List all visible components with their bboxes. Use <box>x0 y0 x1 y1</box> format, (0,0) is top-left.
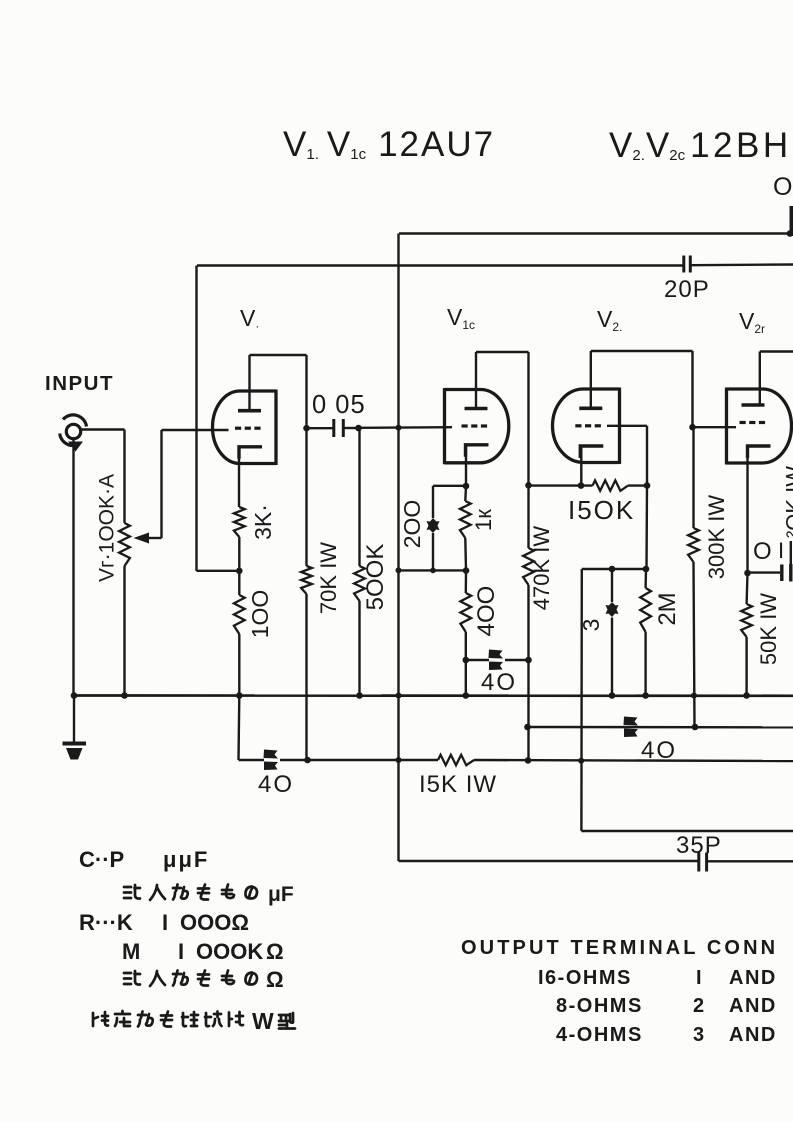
svg-text:V2r: V2r <box>739 308 765 336</box>
resistor 3K <box>234 507 245 537</box>
node 70K bottom / rail 760 <box>304 757 311 764</box>
text 8-OHMS 2 AND <box>556 995 777 1017</box>
svg-text:1OO: 1OO <box>247 590 273 639</box>
label 1K <box>471 509 496 531</box>
node 470K bottom / rail 760 <box>525 757 532 764</box>
label 15K 1W <box>419 771 497 798</box>
svg-text:O: O <box>753 538 772 565</box>
resistor 50K 1W <box>741 573 752 696</box>
text 16-OHMS 1 AND <box>538 967 777 989</box>
note line 2: kanji (unlabeled values are uF) <box>124 883 294 906</box>
node crossing line-A vertical / grid wire <box>396 425 402 431</box>
svg-text:I: I <box>778 538 784 563</box>
wire ground bus <box>74 694 793 697</box>
label V1c <box>447 304 475 332</box>
wire feedback to output (y=831) <box>581 830 793 832</box>
svg-text:8-OHMS: 8-OHMS <box>556 995 643 1017</box>
capacitor 20P plates <box>684 256 691 273</box>
node V1 cathode junction (3K/100/feedback) <box>236 568 243 575</box>
svg-text:4OO: 4OO <box>473 586 500 637</box>
wire 35P line (y=861) <box>399 860 793 863</box>
wire 200/1K bottom to line-A vertical <box>399 569 467 571</box>
label V2b <box>739 308 765 336</box>
node 400 bottom / 40 cap link <box>463 657 470 664</box>
resistor 100 <box>234 595 245 634</box>
svg-text:I: I <box>696 967 702 989</box>
wire 100-bottom down to rail 760 <box>237 696 240 761</box>
svg-text:O: O <box>773 173 792 201</box>
svg-text:I: I <box>178 939 184 964</box>
note line 4: M 1000K ohm <box>122 939 284 964</box>
node 400 / ground bus <box>463 692 470 699</box>
node 3-cap top <box>609 566 616 573</box>
wire coupling to V1c grid <box>359 426 453 429</box>
wire left vertical of line B (x=196) <box>195 266 197 572</box>
svg-text:²OK IW: ²OK IW <box>782 466 793 538</box>
svg-text:V2.V2c12BH: V2.V2c12BH <box>609 126 792 165</box>
svg-text:5OOK: 5OOK <box>362 544 389 611</box>
svg-text:V2.: V2. <box>597 306 622 334</box>
wire V2a plate lead <box>590 351 592 408</box>
wire V1 cathode lead down <box>238 447 240 507</box>
svg-text:50K IW: 50K IW <box>756 593 781 665</box>
svg-text:0 05: 0 05 <box>312 391 366 419</box>
svg-text:OOOK: OOOK <box>196 939 263 964</box>
node 0.05 / 500K / grid wire <box>355 425 362 432</box>
wire input jack down to ground bus <box>72 439 74 696</box>
label O (cut off at right edge) <box>773 173 792 201</box>
svg-text:AND: AND <box>729 995 777 1017</box>
label Vr 100K.A <box>96 474 119 582</box>
node line-A vertical / ground bus <box>396 693 402 699</box>
svg-text:2M: 2M <box>654 592 681 625</box>
capacitor 40 (V1c cathode bypass link) <box>466 650 529 671</box>
svg-text:1к: 1к <box>471 509 496 531</box>
svg-text:3K·: 3K· <box>250 504 276 540</box>
svg-text:4O: 4O <box>481 669 517 696</box>
label 50K 1W <box>756 593 781 665</box>
wire rail 760 middle <box>308 759 439 761</box>
node line-A vertical / rail 760 <box>396 757 402 763</box>
label 70K 1W <box>316 542 341 614</box>
note line 6: kanji (unspecified resistors are W type) <box>93 1008 295 1034</box>
label 0.1 <box>753 538 784 565</box>
svg-text:μμF: μμF <box>163 847 209 872</box>
input jack J1 <box>60 415 87 452</box>
wire 3K to junction <box>238 537 240 571</box>
resistor 470K 1W <box>523 485 534 760</box>
node bypass bottom / vertical <box>396 567 402 573</box>
resistor 400 <box>460 571 471 660</box>
label 470K 1W <box>529 526 554 611</box>
label 150K <box>568 495 635 525</box>
wire top line A (plate supply to output transformer) <box>399 232 790 234</box>
node 300K bottom / rail 727 <box>692 724 699 731</box>
capacitor 200 (cathode bypass) <box>427 486 440 571</box>
wire top line B (feedback bus) <box>197 265 793 266</box>
wire V2b cathode lead <box>746 446 748 573</box>
svg-text:μF: μF <box>268 883 294 906</box>
node 3-cap / ground bus <box>609 692 616 699</box>
wire V2a plate to V2b grid <box>591 351 693 427</box>
node 300K / ground bus <box>691 693 697 699</box>
label fragment cut at right edge <box>782 466 793 538</box>
resistor 2M <box>640 569 651 696</box>
svg-text:2: 2 <box>693 995 704 1017</box>
capacitor 3 (bias) <box>606 569 619 696</box>
svg-text:4-OHMS: 4-OHMS <box>556 1024 643 1046</box>
svg-text:OUTPUT TERMINAL CONN: OUTPUT TERMINAL CONN <box>461 937 778 959</box>
svg-text:INPUT: INPUT <box>45 372 114 395</box>
node junction line A / terminal <box>787 230 793 237</box>
triode V2a (12BH7 section) <box>553 388 620 465</box>
svg-text:Vг·1OOK·A: Vг·1OOK·A <box>96 474 119 582</box>
svg-text:V·: V· <box>240 305 259 333</box>
label 3 <box>578 619 604 632</box>
svg-text:Ω: Ω <box>266 939 284 964</box>
wire V2a cathode lead <box>580 446 582 486</box>
wire V1 plate lead <box>248 355 250 411</box>
resistor 1K <box>460 486 471 571</box>
svg-text:AND: AND <box>729 1024 777 1046</box>
wire V1 plate to 70K top <box>250 355 307 428</box>
svg-text:W: W <box>252 1008 274 1034</box>
label 40 (rail 727) <box>641 737 677 764</box>
triode V1c (12AU7 section) <box>445 388 509 464</box>
capacitor 40 (rail 760) <box>264 750 279 771</box>
wire left vertical of line A (x=398 down to 35P line) <box>397 234 399 862</box>
label 0 05 <box>312 391 366 419</box>
label V2a <box>597 306 622 334</box>
wire rail 760 right segment <box>474 760 793 761</box>
node 100 / ground bus <box>236 692 243 699</box>
label V1 <box>240 305 259 333</box>
node 2M / ground bus <box>642 692 649 699</box>
wire 70K node to 0.05 cap <box>307 427 334 429</box>
svg-text:Ω: Ω <box>266 967 284 992</box>
resistor 300K 1W <box>688 427 699 727</box>
label 3K <box>250 504 276 540</box>
label 20P <box>664 276 710 303</box>
svg-text:4O: 4O <box>258 771 294 798</box>
wire 0.05 cap to 500K node <box>344 427 359 429</box>
label tube types V2 V2c 12BH7 <box>609 126 792 165</box>
node 2M top / 150K-corner line <box>643 566 650 573</box>
wire V1c plate lead <box>475 352 477 409</box>
note line 1: C..P uuF <box>79 847 209 872</box>
wire 400 to ground bus <box>465 660 467 696</box>
capacitor 0.05 plates <box>334 419 344 437</box>
wire 470K top to V2a cathode <box>529 484 593 486</box>
svg-text:V1.V1c12AU7: V1.V1c12AU7 <box>283 125 495 164</box>
triode V2b (12BH7 section) <box>727 388 792 465</box>
svg-text:2OO: 2OO <box>399 500 425 549</box>
node 470K top / 150K left <box>525 482 532 489</box>
pot wiper arrow <box>134 533 162 544</box>
resistor 70K 1W <box>301 428 312 760</box>
capacitor 40 (rail 727) <box>624 717 639 738</box>
node V2a cathode / 150K wire <box>578 482 585 489</box>
wire V2b plate lead <box>759 352 761 406</box>
wire 150K corner down to 2M top <box>645 486 648 569</box>
label 2M <box>654 592 681 625</box>
node pot bottom / ground bus <box>121 692 128 699</box>
wire V2b plate to right edge <box>760 350 793 352</box>
triode V1 (12AU7 section) <box>212 390 276 466</box>
node V2b cathode / 0.1 / 50K <box>744 570 751 577</box>
label 100 <box>247 590 273 639</box>
svg-text:V1c: V1c <box>447 304 475 332</box>
wire supply rail y=727 <box>528 726 793 729</box>
capacitor 0.1 <box>748 541 791 582</box>
label 500K <box>362 544 389 611</box>
svg-text:300K IW: 300K IW <box>704 495 729 580</box>
wire V1c cathode lead <box>465 445 467 486</box>
wire V1c plate up/over to 470K <box>476 352 529 485</box>
wire V1c cathode to 200 cap <box>433 485 466 487</box>
capacitor 35P plates <box>699 853 707 872</box>
svg-text:35P: 35P <box>676 832 722 859</box>
node 1K bottom / 400 top <box>463 567 470 574</box>
svg-text:I: I <box>162 910 168 935</box>
label 200 <box>399 500 425 549</box>
label 40 (rail 760, below) <box>258 771 294 798</box>
terminal stub at right edge of line A <box>790 206 793 236</box>
svg-text:I6-OHMS: I6-OHMS <box>538 967 632 989</box>
svg-text:470K IW: 470K IW <box>529 526 554 611</box>
svg-text:3: 3 <box>693 1024 704 1046</box>
svg-text:AND: AND <box>729 967 777 989</box>
label tube types V1 V1c 12AU7 <box>283 125 495 164</box>
wire 100 to ground bus <box>238 634 240 696</box>
note line 3: R..K 1000 ohm <box>79 910 249 935</box>
ground symbol <box>63 696 87 760</box>
resistor 15K 1W (horizontal in rail) <box>438 755 474 765</box>
potentiometer VR 100K-A body <box>119 430 130 696</box>
svg-text:70K IW: 70K IW <box>316 542 341 614</box>
wire line B to V1 cathode junction <box>197 570 240 572</box>
node V2b grid / 300K <box>689 424 696 431</box>
text 4-OHMS 3 AND <box>556 1024 777 1046</box>
node 50K / ground bus <box>743 692 750 699</box>
label 40 (left-middle) <box>481 669 517 696</box>
wire feedback vertical (x=581) <box>580 569 583 831</box>
wire 150K right to corner <box>628 484 647 486</box>
label 400 <box>473 586 500 637</box>
node feedback / rail 760 <box>578 758 584 764</box>
node jack/ground-bus <box>71 692 78 699</box>
label INPUT <box>45 372 114 395</box>
node 40 link / 470K line <box>525 657 532 664</box>
node 470K line / rail 727 <box>524 724 531 731</box>
resistor 500K <box>354 428 365 696</box>
wire input jack to volume pot top <box>82 428 125 430</box>
resistor 150K (horizontal) <box>593 480 629 490</box>
label 35P <box>676 832 722 859</box>
node 150K right / V2a grid line <box>644 482 651 489</box>
wire supply rail y=760 left segment <box>239 759 265 761</box>
wire wiper to V1 grid <box>162 430 229 538</box>
wire bias network horizontal (y=569) <box>582 568 646 570</box>
svg-text:M: M <box>122 939 140 964</box>
svg-text:C··P: C··P <box>79 847 124 872</box>
svg-text:I5OK: I5OK <box>568 495 635 525</box>
node V1c cathode junction <box>463 483 470 490</box>
text OUTPUT TERMINAL CONNECTION <box>461 937 778 959</box>
node 200 corner <box>430 568 436 574</box>
wire V2a grid out <box>607 426 647 486</box>
node V1 plate / 0.05 cap / 70K <box>303 425 310 432</box>
note line 5: kanji (unlabeled values are ohm) <box>124 967 284 992</box>
node 500K / ground bus <box>356 692 363 699</box>
svg-text:R···K: R···K <box>79 910 133 935</box>
label 300K 1W <box>704 495 729 580</box>
wire V2b grid <box>693 426 737 428</box>
svg-text:20P: 20P <box>664 276 710 303</box>
svg-text:OOOΩ: OOOΩ <box>180 910 249 935</box>
wire rail 760 cap to 70K bottom <box>280 759 307 761</box>
wire junction to 100 <box>238 571 240 595</box>
svg-text:I5K IW: I5K IW <box>419 771 497 798</box>
